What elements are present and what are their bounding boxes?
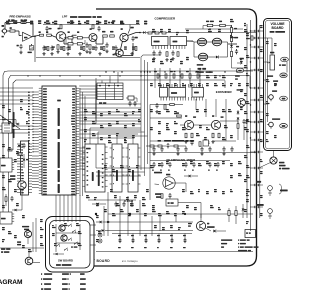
wire Q3 emitter down to Q4	[121, 41, 123, 49]
resistor R9b	[77, 37, 82, 39]
texts under oval	[235, 75, 240, 76]
wire op-amp to LPF	[31, 44, 33, 46]
capacitor C62	[243, 119, 245, 121]
IC7 pin name labels right	[72, 88, 75, 89]
VCO input wire	[187, 40, 195, 43]
wires IC7 right fanout up	[79, 111, 141, 113]
annotation text block	[221, 239, 232, 240]
capacitor C70	[169, 193, 171, 195]
wire mixer rail	[150, 104, 170, 106]
transistor Q5	[184, 120, 193, 129]
VCO wire loop	[194, 41, 197, 43]
transistor Q4 lower	[116, 49, 124, 57]
connector CN2 pin bars	[21, 144, 23, 145]
ground at Q1	[57, 50, 59, 52]
wire effect bus 3	[108, 230, 193, 232]
extra vertical wires lower mid	[103, 206, 105, 236]
component row de-emphasis	[153, 162, 155, 164]
label GR30A-Y	[154, 172, 162, 174]
left misc small parts	[8, 149, 12, 151]
transistor Q8 in SW board	[59, 225, 65, 231]
jack J5 MONO	[268, 186, 273, 191]
label LPF mid	[158, 140, 161, 142]
transistor Q2	[89, 34, 97, 42]
oval label OUT	[280, 124, 288, 129]
switch S4	[74, 243, 75, 244]
SW board outer outline	[46, 217, 95, 273]
wire bottom left bus	[0, 247, 44, 249]
wire right column mixer	[237, 129, 239, 141]
volume board entry ticks	[264, 37, 268, 39]
connector arrow right column	[237, 62, 242, 64]
diode D1 before compressor	[143, 31, 145, 34]
wires IC7 fanout mid	[79, 103, 141, 105]
wire op-amp output	[32, 35, 39, 37]
label row above expander	[154, 71, 157, 72]
transistor Q3	[120, 33, 128, 41]
svg-text:EXPANDER: EXPANDER	[216, 90, 233, 94]
wire to right	[214, 140, 236, 142]
capacitor C31 under IC2	[153, 51, 155, 53]
wire feedback loop	[14, 22, 22, 24]
resistor R51	[170, 104, 175, 106]
transistor Q10 right of expander	[238, 99, 246, 107]
diode matrix table	[97, 83, 123, 100]
legend table	[41, 273, 42, 275]
wire bus compressor to expander	[154, 68, 156, 88]
wire into compressor cluster	[140, 32, 143, 34]
wire Q2 to Q3	[95, 39, 97, 44]
connector CN2 narrow box	[21, 141, 29, 195]
transistor Q7	[196, 221, 205, 230]
resistor R9 emitter	[89, 45, 91, 50]
svg-text:ET-1 7523WQ10: ET-1 7523WQ10	[122, 261, 138, 263]
resistor R8	[68, 37, 73, 39]
bus wire B	[9, 76, 251, 213]
jack J6 DIRECT	[268, 209, 273, 214]
VCO diode D2	[216, 56, 219, 59]
capacitor C4	[40, 34, 44, 36]
transistor Q12 bottom left	[25, 257, 33, 265]
extra wires lower mid horizontals	[96, 167, 150, 169]
ground symbols LPF row	[43, 52, 45, 54]
oval tag MIC right column	[236, 68, 243, 73]
small box K1 left	[2, 123, 12, 133]
text x2 7TWG	[279, 64, 281, 65]
capacitor C36	[236, 49, 238, 51]
resistor R55 emitter Q6	[212, 133, 214, 138]
label VR-1	[270, 52, 274, 54]
label poso	[188, 223, 192, 224]
wires into SW board top	[55, 195, 57, 222]
text REC label	[272, 90, 277, 91]
capacitor bank C80-C85	[119, 239, 122, 241]
resistor R12	[110, 35, 115, 37]
value labels mid lower	[104, 209, 107, 210]
capacitor C65	[207, 140, 209, 142]
wire diodes	[237, 110, 239, 111]
switch S1	[68, 225, 69, 226]
IC7 part number	[57, 100, 61, 102]
connector circle CX2	[98, 239, 102, 243]
resistor R52	[177, 115, 182, 117]
value label row	[44, 22, 46, 24]
transistor Q14 circle	[18, 181, 26, 189]
capacitor C32 under IC2	[159, 51, 161, 53]
switch S5	[56, 245, 57, 246]
IC10b internal bars	[128, 149, 131, 150]
capacitor C15	[132, 36, 134, 38]
text label out	[272, 118, 280, 119]
IC4 expander	[192, 88, 204, 98]
check button speaker	[270, 157, 277, 164]
small box M	[203, 140, 209, 146]
transistor Q11	[24, 230, 31, 237]
IC10a D-RAM	[112, 144, 122, 192]
wire into connector	[0, 87, 33, 89]
diode D9	[189, 175, 191, 178]
volume board outline	[264, 19, 292, 151]
diode D2b in column	[230, 45, 233, 47]
diode D8	[102, 229, 104, 232]
wire mixer row	[146, 145, 150, 147]
bottom left text	[1, 248, 5, 250]
capacitor C8	[106, 43, 108, 45]
resistor R33 under IC2	[166, 52, 168, 57]
IC10a internal bars	[112, 149, 115, 150]
right edge terminal ticks	[250, 30, 263, 32]
capacitor C33 under IC2	[172, 51, 174, 53]
resistor R9b lower	[77, 43, 82, 45]
value labels under LPF	[44, 46, 47, 47]
extra horizontal expander wires	[150, 117, 182, 119]
IC2b compressor right	[170, 37, 187, 46]
resistor row R41-R46	[157, 74, 159, 78]
wire LPF out to compressor	[128, 33, 136, 36]
wires above RAM	[89, 128, 91, 144]
IC2a compressor left	[152, 37, 169, 46]
svg-text:LPF: LPF	[62, 15, 68, 19]
wire RAM row feed	[88, 199, 136, 201]
volume board inner line	[265, 20, 290, 149]
wire to check button	[273, 151, 275, 157]
value labels compressor area	[152, 29, 155, 30]
resistor R54 emitter Q5	[185, 133, 187, 138]
wire crystal	[126, 97, 128, 99]
caps under RAM row	[115, 202, 117, 204]
VCO gate A	[197, 38, 206, 46]
IC15 cropped left	[0, 212, 12, 224]
mid bus top bends	[141, 55, 160, 60]
cap bank wire	[112, 233, 192, 235]
ON CONT box	[166, 199, 178, 206]
label STEREO	[280, 190, 288, 192]
resistor R90 near edge	[251, 36, 253, 40]
VCO labels	[197, 64, 204, 66]
labels under caps	[118, 247, 121, 248]
resistor R30	[207, 24, 213, 26]
wire box to Q7	[178, 202, 201, 204]
value labels above RAM and dram caps	[86, 195, 89, 196]
wire Q5 to Q6	[194, 124, 212, 126]
wire top compressor rail	[185, 28, 243, 30]
resistor R38 vertical	[230, 28, 232, 33]
svg-text:PRE-EMPHASIS: PRE-EMPHASIS	[10, 15, 31, 19]
capacitor C14 at Q3	[128, 29, 130, 34]
IC11 internal pin labels	[87, 152, 89, 153]
crystal caps	[129, 101, 131, 103]
wires K1	[0, 119, 16, 121]
table label FSR	[99, 102, 102, 104]
wire bus drop right 2	[249, 76, 251, 88]
SW board internal wires	[55, 224, 57, 252]
label DIRECT	[256, 204, 264, 206]
resistor column right 1	[228, 211, 230, 216]
IC11 S-RAM	[85, 144, 105, 192]
effect board separator line	[96, 251, 253, 253]
wire mixer out 2	[150, 160, 230, 162]
input jack J1 MIC IN	[2, 29, 6, 33]
label TR13	[17, 241, 21, 242]
resistor R60	[199, 142, 201, 147]
label MONO	[256, 181, 261, 183]
extra small parts LPF lower row	[43, 46, 45, 48]
value labels volume board area	[266, 41, 269, 42]
wire column to border	[232, 67, 249, 69]
value labels left column	[2, 144, 5, 145]
IC3a expander	[160, 88, 168, 98]
resistor R6 emitter	[57, 45, 59, 50]
small box bottom right	[245, 230, 256, 238]
resistor R39 vertical	[230, 37, 232, 42]
text 50k(B)	[267, 75, 273, 76]
transistor Q6	[211, 120, 220, 129]
IC7 pin name labels left	[43, 88, 47, 89]
right bus dots	[250, 30, 251, 31]
small parts in K1	[4, 124, 10, 126]
value labels between table and RAM	[84, 109, 87, 110]
wire R1 to op-amp	[15, 30, 19, 32]
resistor column right 2	[235, 211, 237, 216]
oval label LOUD	[280, 73, 287, 78]
wire op-amp output drop	[34, 36, 36, 62]
text LOUDN LOW	[273, 80, 278, 81]
wire effect bus 2	[108, 221, 193, 223]
SW board inner outline	[50, 221, 91, 269]
junction dots on buses	[105, 71, 106, 72]
volume pot VR1	[270, 55, 275, 70]
diode D6b	[97, 203, 99, 206]
more grounds mixer	[153, 152, 155, 154]
connector pin column lower	[32, 155, 39, 157]
resistor R1	[10, 30, 15, 32]
top supply rail	[43, 24, 140, 26]
label SY MODE	[71, 246, 73, 247]
resistor R50	[164, 105, 166, 110]
pins under expander ICs	[160, 97, 162, 101]
resistor R40 vertical	[230, 52, 232, 57]
diode D10	[213, 230, 216, 233]
resistor R5	[47, 34, 52, 36]
label CHECK BUTTON	[279, 162, 284, 164]
wires table top to bus	[101, 81, 103, 84]
diode D12	[15, 209, 17, 212]
mixer small parts row	[150, 145, 154, 147]
address bus verticals right of IC7	[79, 88, 81, 196]
wire RAM to lower bus	[107, 192, 109, 236]
wire effect bus 1	[108, 213, 253, 215]
jack J2 REC	[269, 95, 274, 100]
capacitor C20 left	[23, 143, 25, 145]
resistor R34 under IC2	[177, 52, 179, 57]
label row for cap bank	[118, 235, 121, 236]
wires Q12	[28, 252, 30, 257]
capacitor C75	[11, 196, 13, 198]
wire rail 2	[148, 32, 256, 34]
capacitor C11 on rail	[98, 26, 100, 28]
wires IC7 right fanout to RAM	[79, 147, 85, 149]
wire input to R1	[7, 30, 10, 32]
extra wires upper mid verticals	[149, 105, 151, 161]
inductor L1 hatched box	[30, 46, 34, 51]
label GR3KM-Y	[237, 89, 244, 90]
capacitor C10 on rail	[46, 26, 48, 28]
wire Q1 to Q2	[63, 40, 65, 45]
resistor R80	[5, 197, 7, 202]
resistor R56 collector	[191, 133, 193, 138]
wire VCO out to right column	[228, 43, 237, 45]
wire Q4 collector right	[123, 55, 133, 57]
value labels right edge column	[244, 29, 247, 30]
wire mid connect	[155, 183, 160, 185]
switch S2	[72, 231, 73, 232]
wire to Q1	[51, 35, 54, 36]
wire lower analog rail	[36, 57, 140, 59]
resistor R7 collector	[60, 25, 62, 29]
connector pin column left of IC7	[33, 91, 39, 93]
resistor R3 feedback	[21, 21, 26, 23]
switch S6	[64, 249, 65, 250]
resistor R58	[237, 124, 239, 129]
IC10b D-RAM	[128, 144, 138, 192]
transistor Q9 in SW board	[61, 235, 67, 241]
crystal X1	[128, 96, 134, 100]
bus lines left mid	[0, 125, 33, 127]
svg-text:SW BOARD: SW BOARD	[58, 259, 73, 263]
pins under IC2	[152, 46, 154, 50]
svg-text:COMPRESSER: COMPRESSER	[155, 17, 176, 21]
wire mixer out long	[148, 152, 256, 154]
capacitor C64	[191, 140, 193, 142]
svg-text:BOARD: BOARD	[271, 26, 284, 30]
diode DS1 in SW board	[56, 253, 58, 255]
wire op-amp output	[174, 182, 187, 184]
resistor R8 lower	[68, 43, 73, 45]
value labels row top analog	[6, 21, 9, 23]
bus wire C	[13, 80, 225, 150]
jack J3 OUT	[269, 122, 274, 127]
wire Q7 collector up	[200, 214, 202, 221]
wire IC2 to VCO	[187, 40, 194, 42]
right outer bus wire	[259, 25, 261, 218]
oval label REC	[280, 96, 288, 101]
VCO gate C	[198, 53, 207, 61]
label below op-amp	[155, 193, 162, 195]
diode D4	[23, 159, 26, 161]
stereo brace	[279, 184, 282, 194]
diode D5	[237, 112, 240, 114]
capacitor C44	[156, 103, 158, 105]
labels de-emphasis row	[152, 169, 154, 170]
wires left column	[21, 189, 23, 210]
capacitor C3 at op-amp	[20, 44, 22, 46]
wires out right of SW board	[90, 224, 96, 226]
resistor R2 feedback	[9, 21, 14, 23]
resistor R11	[103, 35, 108, 37]
junction dots effect bus	[95, 213, 97, 215]
op-amp U1	[23, 32, 33, 41]
more caps mixer bottom	[153, 147, 155, 149]
resistor R70	[161, 194, 163, 199]
IC14 cropped left	[0, 158, 12, 172]
VCO gate B	[212, 38, 221, 46]
resistor R10 collector	[92, 25, 94, 29]
switch S3	[68, 239, 69, 240]
pins above expander ICs	[160, 84, 162, 88]
svg-text:DIAGRAM: DIAGRAM	[0, 279, 23, 286]
diode D6	[237, 118, 240, 120]
connector circle CX1	[98, 233, 102, 237]
diagonal wire	[0, 115, 20, 129]
diode D7	[100, 221, 102, 224]
right inner bus wires	[246, 24, 248, 218]
bus wire A	[3, 71, 253, 218]
text 3.3u	[240, 58, 244, 60]
transistor Q1	[56, 32, 66, 42]
wires table to IC7	[79, 85, 97, 87]
input attenuator boxes	[148, 32, 152, 34]
resistor R57 collector	[218, 133, 220, 138]
value labels expander area	[150, 83, 153, 84]
wire bus drop right 1	[224, 81, 226, 89]
diode D3 left	[17, 123, 19, 126]
oval label VOL	[281, 57, 289, 62]
resistor R31	[220, 24, 226, 26]
IC3b expander	[169, 88, 186, 98]
diode D11	[242, 209, 245, 211]
value labels SW board area	[52, 225, 54, 226]
volume board inner wires	[267, 38, 269, 122]
wire to Q2	[64, 37, 68, 39]
main board outline	[88, 9, 257, 266]
op-amp IC12 in circle	[163, 177, 175, 189]
left vertical label KEYBOARD	[13, 112, 15, 127]
mid bus vertical wires	[140, 60, 142, 170]
capacitor C6	[86, 43, 88, 45]
IC7 sequencer main controller	[42, 86, 76, 195]
